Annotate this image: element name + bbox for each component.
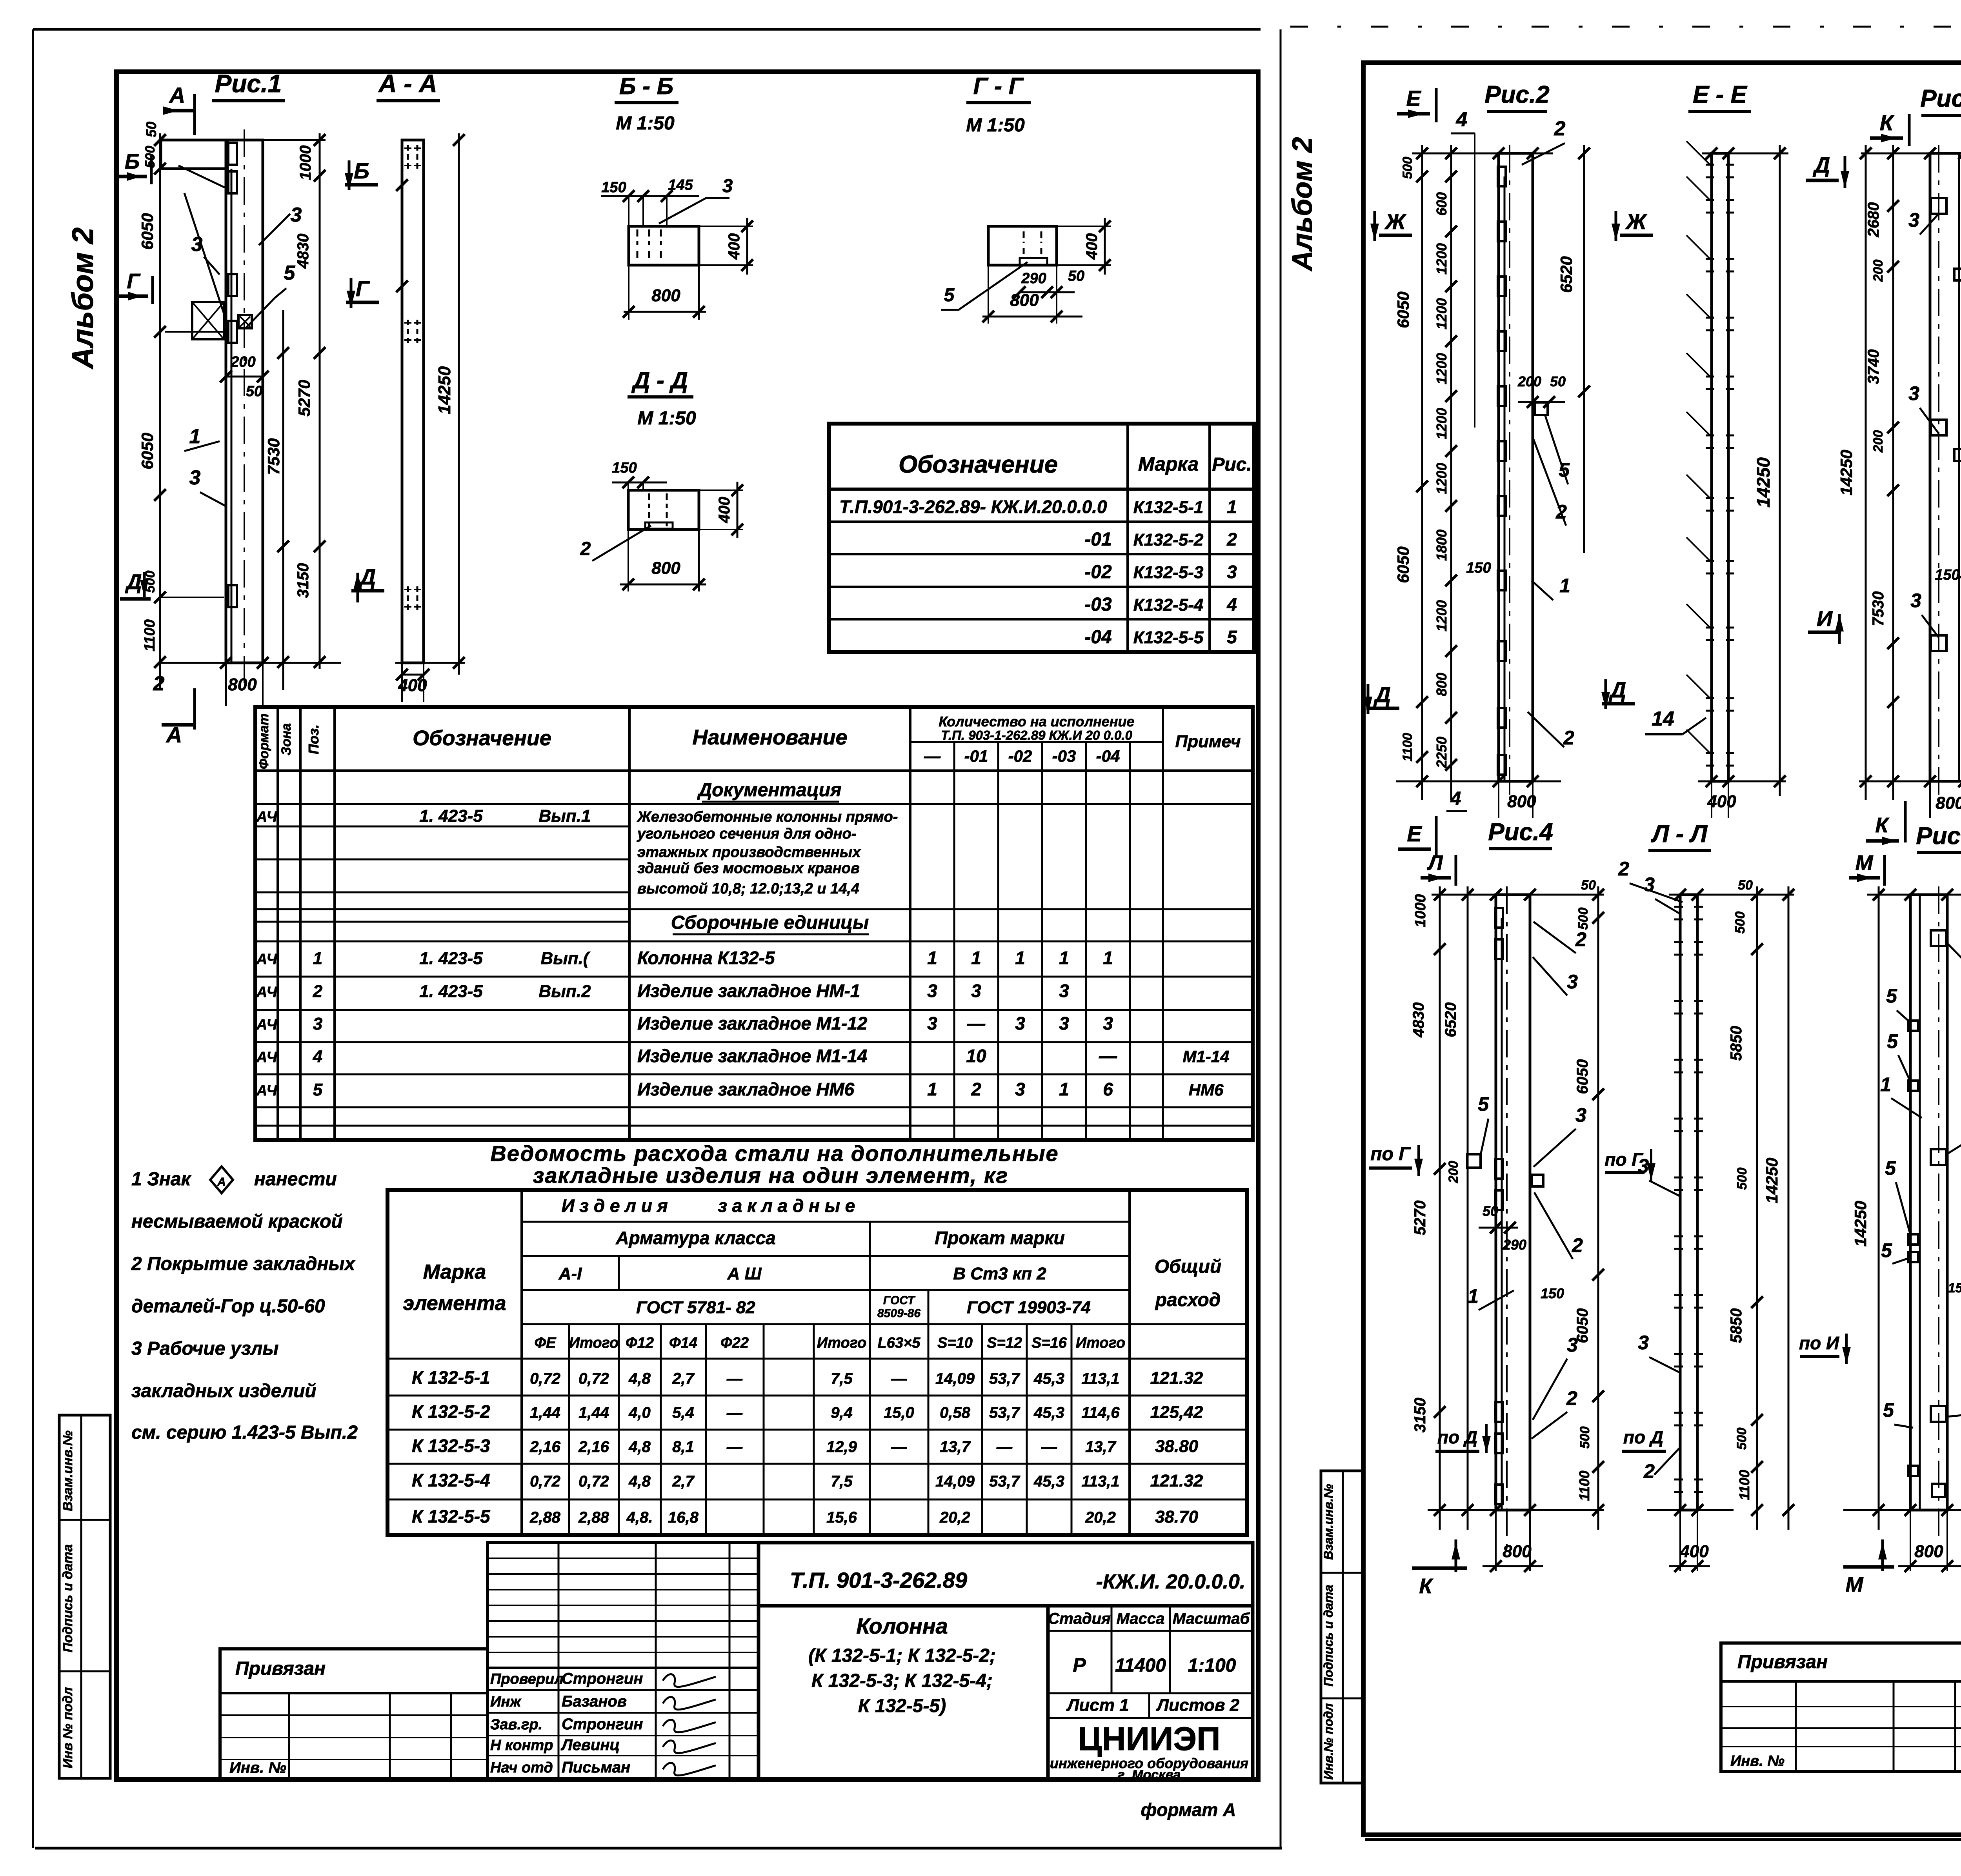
svg-text:7530: 7530 [264, 438, 283, 475]
svg-text:—: — [1099, 1046, 1117, 1066]
svg-text:Н контр: Н контр [490, 1737, 553, 1754]
svg-text:Т.П.901-3-262.89- КЖ.И.20.0.0.: Т.П.901-3-262.89- КЖ.И.20.0.0.0 [839, 497, 1107, 517]
svg-text:Обозначение: Обозначение [413, 726, 551, 750]
svg-text:53,7: 53,7 [989, 1370, 1021, 1387]
svg-text:К 132-5-1: К 132-5-1 [412, 1367, 490, 1388]
svg-text:Сборочные единицы: Сборочные единицы [671, 912, 869, 933]
svg-text:9,4: 9,4 [831, 1404, 853, 1421]
svg-text:М 1:50: М 1:50 [637, 408, 696, 429]
svg-text:125,42: 125,42 [1150, 1403, 1203, 1422]
svg-text:3150: 3150 [295, 563, 312, 598]
svg-text:1000: 1000 [1412, 894, 1429, 928]
svg-text:1: 1 [927, 1079, 937, 1099]
svg-text:расход: расход [1155, 1290, 1221, 1310]
svg-text:1: 1 [1559, 575, 1570, 597]
svg-text:121.32: 121.32 [1150, 1471, 1203, 1490]
svg-text:Рис.1: Рис.1 [215, 69, 282, 98]
svg-text:К132-5-2: К132-5-2 [1133, 530, 1204, 550]
svg-text:2: 2 [580, 539, 591, 559]
svg-text:200: 200 [1517, 373, 1541, 389]
svg-text:38.80: 38.80 [1155, 1437, 1199, 1456]
svg-text:Рис.: Рис. [1212, 454, 1252, 475]
svg-text:К: К [1875, 813, 1890, 837]
svg-text:150: 150 [1948, 1281, 1961, 1296]
svg-text:К132-5-3: К132-5-3 [1133, 563, 1204, 582]
svg-text:150: 150 [601, 179, 626, 196]
svg-text:Письман: Письман [562, 1759, 630, 1776]
svg-text:АЧ: АЧ [256, 984, 278, 1001]
svg-text:Примеч: Примеч [1175, 732, 1241, 751]
svg-text:Листов 2: Листов 2 [1156, 1696, 1240, 1715]
svg-text:1,44: 1,44 [530, 1404, 560, 1421]
svg-text:16,8: 16,8 [668, 1509, 699, 1526]
svg-text:1. 423-5: 1. 423-5 [419, 806, 483, 826]
svg-text:г. Москва: г. Москва [1118, 1767, 1181, 1782]
svg-text:14: 14 [1652, 708, 1674, 730]
svg-text:Взам.инв.№: Взам.инв.№ [60, 1430, 75, 1511]
svg-text:1200: 1200 [1433, 463, 1450, 494]
svg-text:Итого: Итого [817, 1335, 866, 1351]
svg-text:—: — [996, 1438, 1013, 1456]
svg-text:нанести: нанести [254, 1169, 337, 1190]
svg-text:0,72: 0,72 [530, 1370, 560, 1387]
svg-text:Е: Е [1406, 86, 1421, 111]
svg-text:А - А: А - А [378, 69, 437, 98]
svg-text:—: — [726, 1370, 743, 1387]
svg-text:Л - Л: Л - Л [1651, 821, 1708, 848]
svg-text:13,7: 13,7 [940, 1438, 971, 1456]
svg-text:Г: Г [356, 276, 370, 301]
svg-text:1800: 1800 [1433, 530, 1450, 561]
svg-text:зданий без мостовых кранов: зданий без мостовых кранов [637, 860, 860, 877]
svg-text:М: М [1855, 851, 1874, 875]
svg-text:АЧ: АЧ [256, 1017, 278, 1033]
svg-text:14250: 14250 [1837, 450, 1855, 496]
svg-text:L63×5: L63×5 [878, 1335, 921, 1351]
svg-text:Б - Б: Б - Б [619, 73, 673, 99]
svg-text:Количество на исполнение: Количество на исполнение [939, 713, 1134, 730]
svg-text:12,9: 12,9 [826, 1438, 857, 1456]
svg-text:5: 5 [1886, 985, 1897, 1007]
svg-text:150: 150 [612, 460, 637, 476]
svg-text:Изделие закладное НМ6: Изделие закладное НМ6 [637, 1079, 855, 1099]
svg-text:М: М [1846, 1573, 1864, 1596]
svg-text:2 Покрытие закладных: 2 Покрытие закладных [131, 1254, 356, 1274]
svg-text:500: 500 [1735, 1168, 1750, 1190]
svg-text:3: 3 [1908, 382, 1919, 404]
svg-text:0,72: 0,72 [578, 1370, 609, 1387]
svg-text:Ф22: Ф22 [720, 1335, 749, 1351]
svg-text:800: 800 [651, 559, 680, 578]
svg-text:Инж: Инж [490, 1694, 522, 1710]
svg-text:3: 3 [1015, 1079, 1025, 1099]
svg-text:53,7: 53,7 [989, 1473, 1021, 1490]
svg-text:500: 500 [1577, 1427, 1592, 1449]
svg-text:Привязан: Привязан [235, 1658, 326, 1679]
svg-text:4,8.: 4,8. [626, 1509, 653, 1526]
svg-text:В Ст3 кп 2: В Ст3 кп 2 [953, 1264, 1046, 1283]
svg-text:по Г: по Г [1370, 1144, 1411, 1165]
svg-text:Е - Е: Е - Е [1693, 81, 1747, 108]
svg-text:1000: 1000 [297, 146, 314, 180]
svg-text:200: 200 [1871, 260, 1886, 282]
svg-text:20,2: 20,2 [939, 1509, 970, 1526]
svg-text:2680: 2680 [1865, 202, 1882, 238]
svg-text:20,2: 20,2 [1085, 1509, 1116, 1526]
svg-text:Прокат марки: Прокат марки [935, 1228, 1065, 1248]
svg-text:14250: 14250 [1763, 1158, 1781, 1204]
svg-text:1200: 1200 [1433, 600, 1450, 631]
svg-text:1 Знак: 1 Знак [131, 1169, 192, 1190]
svg-text:400: 400 [726, 233, 743, 260]
svg-text:Привязан: Привязан [1737, 1652, 1828, 1672]
svg-text:800: 800 [1433, 673, 1450, 696]
svg-text:3: 3 [1910, 590, 1921, 611]
svg-text:-КЖ.И. 20.0.0.0.: -КЖ.И. 20.0.0.0. [1096, 1570, 1246, 1593]
svg-text:1: 1 [313, 949, 322, 968]
svg-text:Формат: Формат [256, 713, 271, 769]
svg-text:Г: Г [127, 269, 141, 293]
svg-text:2: 2 [313, 982, 323, 1001]
svg-text:400: 400 [716, 497, 733, 524]
svg-text:0,72: 0,72 [530, 1473, 560, 1490]
svg-text:1: 1 [1015, 948, 1025, 968]
svg-text:2: 2 [1618, 858, 1629, 880]
svg-text:5: 5 [1883, 1399, 1894, 1421]
svg-text:50: 50 [1483, 1203, 1498, 1219]
svg-text:3: 3 [1908, 209, 1919, 231]
svg-text:Д: Д [1609, 677, 1626, 702]
svg-text:5: 5 [284, 262, 296, 284]
svg-text:Базанов: Базанов [562, 1693, 627, 1710]
svg-text:Железобетонные колонны прямо-: Железобетонные колонны прямо- [637, 809, 898, 825]
svg-text:высотой 10,8; 12.0;13,2 и 14,4: высотой 10,8; 12.0;13,2 и 14,4 [637, 881, 859, 897]
svg-text:—: — [891, 1370, 907, 1387]
svg-text:—: — [891, 1438, 907, 1456]
svg-text:см. серию 1.423-5 Вып.2: см. серию 1.423-5 Вып.2 [131, 1422, 358, 1443]
svg-text:Р: Р [1073, 1654, 1086, 1676]
svg-text:2: 2 [1566, 1387, 1577, 1409]
svg-text:—: — [726, 1404, 743, 1421]
svg-text:15,6: 15,6 [826, 1509, 857, 1526]
svg-text:Обозначение: Обозначение [899, 451, 1058, 478]
svg-text:И: И [1817, 606, 1833, 631]
svg-text:2: 2 [1554, 117, 1566, 140]
svg-text:по Д: по Д [1437, 1427, 1477, 1447]
svg-text:Взам.инв.№: Взам.инв.№ [1321, 1484, 1335, 1560]
svg-text:Проверил: Проверил [490, 1671, 564, 1687]
svg-text:Документация: Документация [697, 780, 842, 801]
svg-text:3: 3 [313, 1014, 322, 1034]
svg-text:14250: 14250 [1851, 1201, 1870, 1247]
svg-text:1100: 1100 [1576, 1470, 1592, 1501]
svg-text:элемента: элемента [403, 1292, 506, 1315]
svg-text:Т.П. 903-1-262.89 КЖ.И 20 0.0.: Т.П. 903-1-262.89 КЖ.И 20 0.0.0 [941, 728, 1133, 742]
svg-text:3: 3 [291, 204, 302, 226]
svg-text:500: 500 [1400, 157, 1415, 179]
svg-text:5850: 5850 [1728, 1308, 1745, 1343]
svg-text:114,6: 114,6 [1081, 1404, 1120, 1421]
svg-text:(К 132-5-1; К 132-5-2;: (К 132-5-1; К 132-5-2; [808, 1645, 996, 1666]
svg-text:5270: 5270 [295, 380, 313, 416]
svg-text:3: 3 [722, 176, 733, 197]
svg-text:К132-5-5: К132-5-5 [1133, 628, 1204, 647]
svg-text:14,09: 14,09 [935, 1473, 975, 1490]
svg-text:Б: Б [354, 158, 369, 183]
svg-text:Поз.: Поз. [306, 724, 322, 754]
svg-text:-01: -01 [964, 747, 988, 765]
svg-text:3: 3 [191, 233, 203, 256]
svg-text:1,44: 1,44 [578, 1404, 609, 1421]
svg-text:закладные изделия на оди: закладные изделия на один элемент, кг [533, 1163, 1008, 1188]
svg-text:формат А: формат А [1141, 1800, 1236, 1820]
svg-text:5,4: 5,4 [672, 1404, 694, 1421]
svg-text:14250: 14250 [435, 366, 454, 414]
svg-text:К132-5-1: К132-5-1 [1133, 498, 1204, 517]
svg-text:А: А [217, 1175, 226, 1188]
svg-text:К: К [1880, 110, 1895, 135]
svg-text:Зона: Зона [279, 723, 294, 755]
svg-text:S=16: S=16 [1031, 1335, 1067, 1351]
svg-text:Колонна К132-5: Колонна К132-5 [637, 948, 775, 968]
svg-text:3: 3 [1059, 981, 1069, 1001]
svg-text:АЧ: АЧ [256, 809, 278, 825]
svg-text:6050: 6050 [1574, 1308, 1591, 1343]
svg-text:закладных изделий: закладных изделий [131, 1381, 317, 1401]
svg-text:113,1: 113,1 [1081, 1473, 1119, 1490]
svg-text:—: — [726, 1438, 743, 1456]
svg-text:—: — [967, 1013, 986, 1034]
svg-text:НМ6: НМ6 [1189, 1081, 1224, 1099]
svg-text:2: 2 [1563, 727, 1574, 749]
svg-text:14250: 14250 [1753, 457, 1774, 508]
svg-text:угольного сечения для одно-: угольного сечения для одно- [637, 826, 856, 842]
svg-text:К 132-5-5: К 132-5-5 [412, 1506, 491, 1527]
svg-text:-04: -04 [1084, 627, 1111, 648]
svg-text:Г - Г: Г - Г [973, 73, 1024, 99]
svg-text:Ж: Ж [1625, 209, 1648, 234]
svg-text:1: 1 [1880, 1074, 1891, 1095]
svg-text:400: 400 [1679, 1542, 1709, 1561]
svg-text:Вып.(: Вып.( [540, 949, 590, 968]
svg-text:К 132-5-2: К 132-5-2 [412, 1401, 490, 1422]
svg-text:Инв.№ подл: Инв.№ подл [1321, 1703, 1335, 1780]
svg-text:Лист 1: Лист 1 [1066, 1696, 1129, 1715]
svg-text:121.32: 121.32 [1150, 1368, 1203, 1388]
svg-text:800: 800 [651, 286, 680, 305]
svg-text:3: 3 [1227, 562, 1237, 582]
svg-text:11400: 11400 [1115, 1655, 1166, 1676]
svg-text:500: 500 [1733, 912, 1748, 934]
svg-text:1: 1 [1103, 948, 1113, 968]
svg-text:6520: 6520 [1442, 1003, 1459, 1037]
svg-text:3: 3 [1567, 971, 1578, 993]
svg-text:Марка: Марка [423, 1261, 486, 1283]
svg-text:800: 800 [1010, 291, 1039, 310]
svg-text:8509-86: 8509-86 [877, 1307, 920, 1320]
svg-text:13,7: 13,7 [1085, 1438, 1117, 1456]
svg-text:К132-5-4: К132-5-4 [1133, 595, 1204, 615]
svg-text:по Г: по Г [1604, 1149, 1643, 1170]
svg-text:7,5: 7,5 [831, 1473, 853, 1490]
svg-text:ЦНИИЭП: ЦНИИЭП [1078, 1720, 1221, 1757]
svg-text:Нач отд: Нач отд [490, 1760, 553, 1776]
svg-text:Рис.4: Рис.4 [1488, 819, 1553, 846]
svg-text:Масштаб: Масштаб [1173, 1610, 1250, 1627]
svg-text:45,3: 45,3 [1033, 1473, 1064, 1490]
svg-text:АЧ: АЧ [256, 1083, 278, 1099]
svg-text:3740: 3740 [1865, 349, 1882, 384]
svg-text:50: 50 [1550, 373, 1566, 389]
svg-text:Стронгин: Стронгин [562, 1716, 643, 1733]
svg-text:1200: 1200 [1433, 243, 1450, 275]
svg-text:3: 3 [1103, 1013, 1113, 1034]
svg-text:Ф12: Ф12 [626, 1335, 654, 1351]
svg-text:5: 5 [944, 285, 955, 306]
svg-text:3: 3 [927, 1013, 937, 1034]
svg-text:ФЕ: ФЕ [534, 1335, 557, 1351]
svg-text:И з д е л и я з а к л: И з д е л и я з а к л а д н ы е [562, 1195, 855, 1216]
svg-text:3: 3 [1575, 1104, 1586, 1126]
svg-text:Альбом 2: Альбом 2 [66, 227, 100, 369]
svg-text:3: 3 [971, 981, 981, 1001]
svg-text:5: 5 [313, 1080, 323, 1099]
svg-text:Подпись и дата: Подпись и дата [1321, 1585, 1335, 1686]
svg-text:5: 5 [1227, 627, 1237, 647]
svg-text:5: 5 [1887, 1030, 1898, 1052]
svg-text:500: 500 [1576, 908, 1591, 930]
svg-text:-03: -03 [1052, 747, 1076, 765]
svg-text:3: 3 [189, 466, 201, 489]
svg-text:-01: -01 [1084, 529, 1111, 550]
svg-text:S=12: S=12 [987, 1335, 1022, 1351]
svg-text:Марка: Марка [1138, 453, 1199, 475]
svg-text:0,72: 0,72 [578, 1473, 609, 1490]
svg-text:1200: 1200 [1433, 408, 1450, 439]
svg-text:6050: 6050 [1394, 546, 1412, 583]
svg-text:М 1:50: М 1:50 [616, 113, 675, 134]
svg-text:1:100: 1:100 [1188, 1655, 1236, 1676]
svg-text:этажных производственных: этажных производственных [637, 844, 861, 861]
svg-text:1: 1 [189, 425, 201, 448]
svg-text:50: 50 [143, 122, 159, 137]
svg-text:К 132-5-3: К 132-5-3 [412, 1436, 490, 1456]
svg-text:5: 5 [1881, 1239, 1892, 1261]
svg-text:Рис.5: Рис.5 [1916, 822, 1961, 850]
svg-text:Б: Б [125, 150, 140, 173]
svg-text:-02: -02 [1008, 747, 1032, 765]
svg-text:А Ш: А Ш [727, 1264, 762, 1283]
svg-text:Ж: Ж [1384, 209, 1407, 234]
svg-text:15,0: 15,0 [884, 1404, 914, 1421]
svg-text:Рис.2: Рис.2 [1484, 81, 1549, 108]
svg-text:Ф14: Ф14 [669, 1335, 697, 1351]
svg-text:2: 2 [1643, 1460, 1655, 1482]
svg-text:200: 200 [230, 354, 255, 370]
svg-text:5850: 5850 [1728, 1026, 1745, 1061]
svg-text:290: 290 [1021, 270, 1046, 287]
svg-text:6050: 6050 [1574, 1059, 1591, 1094]
svg-text:113,1: 113,1 [1081, 1370, 1119, 1387]
svg-text:5: 5 [1478, 1093, 1489, 1115]
svg-text:4: 4 [1226, 594, 1237, 615]
svg-text:Д: Д [125, 570, 142, 594]
svg-text:0,58: 0,58 [940, 1404, 971, 1421]
svg-text:-04: -04 [1096, 747, 1120, 765]
svg-text:4,8: 4,8 [628, 1473, 651, 1490]
svg-text:800: 800 [1914, 1542, 1943, 1561]
svg-text:Изделие закладное НМ-1: Изделие закладное НМ-1 [637, 981, 860, 1001]
svg-text:Инв. №: Инв. № [1730, 1753, 1785, 1769]
svg-text:Т.П. 901-3-262.89: Т.П. 901-3-262.89 [790, 1568, 967, 1592]
svg-text:3: 3 [1638, 1332, 1649, 1354]
svg-text:1200: 1200 [1433, 298, 1450, 329]
svg-text:53,7: 53,7 [989, 1404, 1021, 1421]
svg-text:2: 2 [153, 672, 165, 695]
svg-text:5270: 5270 [1412, 1201, 1429, 1236]
svg-text:Рис.3: Рис.3 [1920, 85, 1961, 112]
svg-text:Д: Д [1373, 682, 1391, 707]
svg-text:4: 4 [1450, 788, 1461, 809]
svg-text:К 132-5-3; К 132-5-4;: К 132-5-3; К 132-5-4; [811, 1670, 993, 1691]
svg-text:2,16: 2,16 [578, 1438, 609, 1456]
svg-text:Д: Д [1813, 153, 1830, 177]
svg-text:Итого: Итого [569, 1335, 618, 1351]
svg-text:800: 800 [228, 675, 257, 694]
svg-text:по Д: по Д [1623, 1427, 1663, 1447]
svg-text:Стронгин: Стронгин [562, 1670, 643, 1687]
svg-text:М 1:50: М 1:50 [966, 115, 1025, 136]
svg-text:1: 1 [1468, 1285, 1479, 1307]
svg-text:1: 1 [927, 948, 937, 968]
svg-text:150: 150 [1935, 567, 1959, 583]
svg-text:2,7: 2,7 [672, 1473, 695, 1490]
svg-text:1200: 1200 [1433, 353, 1450, 384]
svg-text:150: 150 [1541, 1285, 1564, 1301]
svg-text:800: 800 [1936, 793, 1961, 813]
svg-text:Изделие закладное М1-12: Изделие закладное М1-12 [637, 1013, 868, 1034]
svg-text:50: 50 [246, 383, 262, 400]
svg-text:2: 2 [1572, 1234, 1583, 1256]
svg-text:Подпись и дата: Подпись и дата [60, 1544, 75, 1652]
svg-text:-03: -03 [1084, 594, 1112, 615]
svg-text:7530: 7530 [1870, 591, 1887, 626]
svg-text:150: 150 [1466, 560, 1491, 576]
svg-text:2: 2 [1575, 928, 1586, 950]
svg-text:деталей-Гор ц.50-60: деталей-Гор ц.50-60 [131, 1296, 325, 1317]
svg-text:1100: 1100 [1400, 733, 1415, 761]
svg-text:2,88: 2,88 [578, 1509, 609, 1526]
svg-text:600: 600 [1433, 192, 1450, 216]
svg-text:2250: 2250 [1433, 737, 1450, 768]
svg-text:К: К [1419, 1574, 1433, 1598]
svg-text:S=10: S=10 [937, 1335, 973, 1351]
svg-text:Масса: Масса [1117, 1610, 1165, 1627]
svg-text:Наименование: Наименование [692, 726, 847, 749]
svg-text:АЧ: АЧ [256, 1049, 278, 1066]
svg-text:3: 3 [1015, 1013, 1025, 1034]
svg-text:14,09: 14,09 [935, 1370, 975, 1387]
svg-text:Д - Д: Д - Д [631, 367, 688, 393]
svg-text:50: 50 [1738, 878, 1753, 893]
svg-text:1: 1 [1227, 497, 1237, 517]
svg-text:800: 800 [1503, 1542, 1532, 1561]
svg-text:несмываемой краской: несмываемой краской [131, 1211, 343, 1232]
svg-text:Инв № подл: Инв № подл [60, 1687, 75, 1768]
svg-text:М1-14: М1-14 [1182, 1047, 1229, 1066]
svg-text:38.70: 38.70 [1155, 1507, 1199, 1527]
svg-text:по И: по И [1799, 1333, 1839, 1353]
